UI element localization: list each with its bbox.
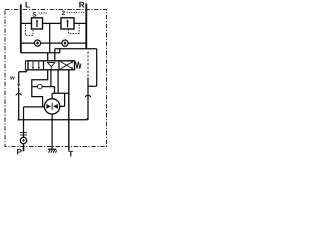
junction dot motor bottom xyxy=(51,119,53,121)
wire R branch down xyxy=(88,49,97,86)
relief valve left body xyxy=(32,18,43,29)
node middle vertical xyxy=(49,23,51,52)
wire valve A drop xyxy=(47,53,49,61)
wire R branch lower with crossover hop xyxy=(87,78,89,120)
wire top interconnect xyxy=(21,22,87,24)
pilot dashed loop right relief xyxy=(69,24,80,33)
port R line xyxy=(85,4,87,49)
port T line xyxy=(68,70,70,151)
wire valve B drop xyxy=(54,49,56,61)
check valve circle left xyxy=(34,40,40,46)
svg-text:2: 2 xyxy=(62,10,66,17)
svg-text:L: L xyxy=(25,1,30,10)
wire tank rail xyxy=(19,119,88,121)
wire W line with crossover hop xyxy=(18,88,20,120)
enclosure dash-dot frame xyxy=(5,10,107,147)
valve chamber dividers xyxy=(44,61,60,70)
wire valve T drop xyxy=(52,70,69,94)
orifice circle xyxy=(38,84,43,89)
port L line xyxy=(20,4,22,53)
svg-text:P: P xyxy=(16,148,22,157)
port P line lower xyxy=(23,144,25,152)
junction dot R branch to tank rail xyxy=(87,118,89,120)
valve chamber 1 arrows xyxy=(32,62,34,68)
flow divider motor circle xyxy=(44,99,59,114)
relief valve right arrow xyxy=(67,21,69,28)
pilot dashed loop left relief xyxy=(25,24,33,35)
wire valve P drop zigzag xyxy=(32,70,48,107)
svg-text:R: R xyxy=(79,1,85,10)
tank symbol xyxy=(48,148,56,150)
valve chamber 3 crossed arrows xyxy=(61,62,73,69)
wire motor left to P xyxy=(24,107,45,130)
wire motor right xyxy=(59,93,64,106)
arrow W down xyxy=(17,84,20,88)
wire W line from valve cap xyxy=(19,70,27,84)
svg-text:w: w xyxy=(9,76,15,82)
valve spring right xyxy=(75,62,82,69)
valve end cap left xyxy=(25,61,28,70)
check valve circle right xyxy=(62,40,68,46)
pilot dashed spool detent xyxy=(87,52,89,78)
coupling ticks on P line xyxy=(20,132,27,135)
svg-text:T: T xyxy=(68,150,73,157)
wire bypass with orifice xyxy=(32,70,55,94)
wire motor top xyxy=(51,93,53,99)
wire motor bottom to tank xyxy=(51,114,53,150)
directional valve body xyxy=(28,61,75,70)
wire check rail xyxy=(21,42,87,44)
svg-text:S: S xyxy=(32,12,36,19)
valve chamber 2 blocked ports xyxy=(47,62,55,69)
wire work rail L xyxy=(21,49,97,53)
gauge circle on P line xyxy=(23,130,25,138)
relief valve right body xyxy=(61,18,74,29)
pilot dotted line S xyxy=(39,12,48,14)
relief valve left arrow xyxy=(36,21,38,28)
pilot dotted line 2 xyxy=(67,11,85,13)
